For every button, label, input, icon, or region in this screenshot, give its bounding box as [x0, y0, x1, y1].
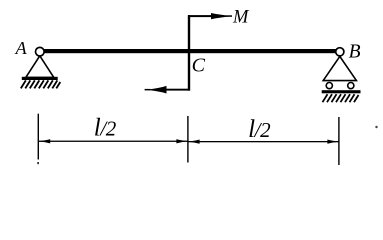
dimension arrow left of C: [176, 139, 188, 143]
svg-text:A: A: [15, 38, 28, 58]
dimension line C-B: [188, 141, 339, 142]
support B hatching: [323, 94, 359, 102]
moment top arm wire: [188, 15, 214, 17]
support B triangle: [323, 56, 356, 80]
support A pin circle: [36, 47, 45, 56]
moment bottom arrowhead: [145, 86, 167, 94]
svg-text:B: B: [349, 41, 361, 62]
dimension arrow at A: [39, 139, 50, 143]
beam AB: [44, 49, 336, 53]
dimension arrow right of C: [188, 140, 200, 144]
moment couple vertical line at C: [188, 15, 190, 91]
dimension line A-C: [39, 141, 188, 142]
svg-text:l/2: l/2: [94, 115, 117, 142]
moment top arrowhead: [211, 13, 233, 19]
svg-text:l/2: l/2: [248, 116, 271, 143]
speck artifact below left extension line: [37, 162, 39, 164]
svg-text:M: M: [232, 7, 250, 27]
support B pin circle: [336, 48, 344, 56]
support A hatching: [21, 80, 61, 88]
dimension arrow at B: [327, 140, 339, 144]
support B roller left: [326, 83, 332, 89]
support B ground line: [322, 90, 361, 93]
extension line under A: [38, 114, 39, 160]
support A triangle: [26, 56, 54, 78]
speck artifact right: [375, 126, 377, 128]
moment bottom arm wire: [163, 89, 189, 91]
extension line under C: [187, 116, 188, 163]
extension line under B: [338, 117, 339, 165]
support A ground line: [22, 77, 58, 80]
support B roller right: [348, 83, 354, 89]
svg-text:C: C: [192, 54, 206, 76]
